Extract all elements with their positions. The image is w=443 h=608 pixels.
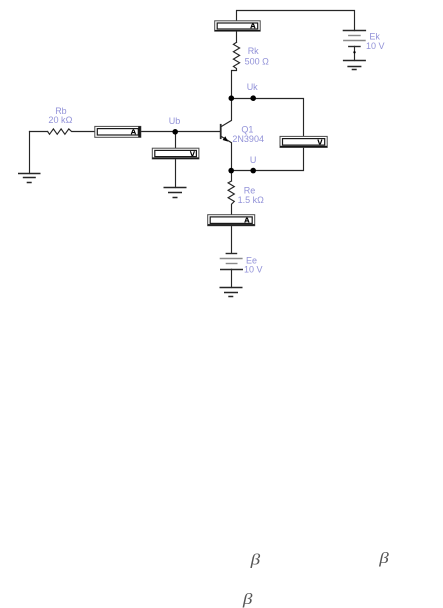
svg-text:Ub: Ub xyxy=(169,116,181,126)
svg-text:Rk: Rk xyxy=(248,46,259,56)
svg-text:β: β xyxy=(250,550,261,568)
svg-text:10 V: 10 V xyxy=(244,264,263,274)
svg-text:β: β xyxy=(242,590,253,608)
svg-text:Re: Re xyxy=(244,185,256,195)
svg-text:Uk: Uk xyxy=(247,82,258,92)
svg-text:β: β xyxy=(378,549,389,567)
svg-text:2N3904: 2N3904 xyxy=(232,134,264,144)
svg-text:10 V: 10 V xyxy=(366,41,385,51)
svg-text:500 Ω: 500 Ω xyxy=(245,57,270,67)
svg-text:1.5 kΩ: 1.5 kΩ xyxy=(238,195,265,205)
svg-text:Q1: Q1 xyxy=(241,125,253,135)
svg-text:U: U xyxy=(250,155,257,165)
svg-text:20 kΩ: 20 kΩ xyxy=(48,115,72,125)
svg-text:Ek: Ek xyxy=(369,31,380,41)
